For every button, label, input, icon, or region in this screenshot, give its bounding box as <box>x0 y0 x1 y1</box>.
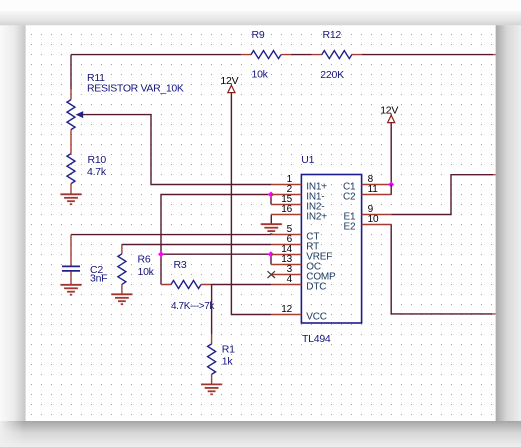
pin 1 IN1+ <box>271 174 327 193</box>
wire RT to R6 <box>122 244 271 246</box>
svg-text:12: 12 <box>281 304 292 315</box>
svg-text:R3: R3 <box>174 259 187 271</box>
svg-text:R12: R12 <box>323 29 342 41</box>
value RESISTOR VAR_10K <box>87 82 184 94</box>
pin 15 IN2- <box>271 194 324 213</box>
ground below R6 <box>111 294 132 304</box>
svg-text:4: 4 <box>287 274 293 285</box>
svg-text:DTC: DTC <box>306 282 326 293</box>
pin 2 IN1- <box>271 184 324 203</box>
label R1 <box>222 344 235 356</box>
pin 6 RT <box>271 234 319 253</box>
resistor R6 <box>118 245 126 295</box>
svg-text:4.7K--->7k: 4.7K--->7k <box>171 301 215 312</box>
op-amp U1 TL494 body <box>301 175 361 324</box>
value 3nF <box>90 273 107 285</box>
wire R3 right to DTC <box>211 284 271 286</box>
wire IN2+ to ground <box>270 215 272 225</box>
svg-text:10k: 10k <box>252 69 269 81</box>
svg-text:10: 10 <box>368 214 379 225</box>
pin 10 E2 <box>344 214 392 233</box>
svg-text:220K: 220K <box>320 69 344 81</box>
label R9 <box>252 29 265 41</box>
wire CT to C2 <box>71 234 271 236</box>
pin 12 VCC <box>271 304 327 323</box>
value 10k (R9) <box>252 69 269 81</box>
svg-text:VCC: VCC <box>306 312 327 323</box>
value 220K (R12) <box>320 69 344 81</box>
ground below R10 <box>60 194 81 204</box>
label R11 <box>87 72 105 84</box>
value 4.7k (R10) <box>87 166 107 178</box>
wire down to R1 <box>211 285 213 335</box>
svg-text:R9: R9 <box>252 29 265 41</box>
ground below R1 <box>201 384 222 394</box>
pin 8 C1 <box>343 174 391 193</box>
wire E2 down and right to page edge <box>391 225 495 314</box>
svg-text:R1: R1 <box>222 344 235 356</box>
svg-text:11: 11 <box>368 184 379 195</box>
ground below C2 <box>60 285 81 295</box>
pin 9 E1 <box>344 204 392 223</box>
value 10k (R6) <box>138 266 155 278</box>
label R12 <box>323 29 342 41</box>
junction dot at VREF/OC tie <box>268 251 274 257</box>
pin 4 DTC <box>271 274 326 293</box>
wire 12V down to VCC pin 12 <box>231 93 271 315</box>
junction dot at IN1-/IN2- tie <box>268 192 274 198</box>
svg-text:TL494: TL494 <box>302 333 331 345</box>
pin 13 OC <box>271 254 321 273</box>
pin 3 COMP <box>271 264 336 283</box>
wire 12V down to C1 junction <box>390 123 392 185</box>
resistor R1 <box>208 334 216 384</box>
resistor R3 <box>161 281 211 289</box>
svg-text:R10: R10 <box>88 154 107 166</box>
wire top rail from R11 top to page edge <box>71 55 496 90</box>
wire E1 to page edge <box>391 175 495 215</box>
svg-text:3nF: 3nF <box>90 273 107 285</box>
svg-text:1k: 1k <box>222 356 234 368</box>
svg-text:12V: 12V <box>380 105 398 117</box>
label R3 <box>174 259 187 271</box>
svg-text:R6: R6 <box>138 253 151 265</box>
svg-text:10k: 10k <box>138 266 155 278</box>
pin 16 IN2+ <box>271 204 327 223</box>
svg-text:E2: E2 <box>344 222 356 233</box>
value 1k (R1) <box>222 356 234 368</box>
label R10 <box>88 154 107 166</box>
potentiometer R11 <box>67 90 83 154</box>
label U1 <box>301 154 314 166</box>
label TL494 <box>302 333 331 345</box>
label 12V (left) <box>220 75 238 87</box>
no-connect X at COMP pin 3 <box>268 271 276 278</box>
svg-text:16: 16 <box>281 204 292 215</box>
wire C2 pin to C1 junction <box>390 185 392 195</box>
power 12V rail right <box>388 114 395 123</box>
ground at IN2+ <box>261 224 282 234</box>
wire IN1- to VREF junction and R3 <box>161 195 271 285</box>
power 12V rail left <box>228 84 235 93</box>
resistor R12 <box>312 51 362 59</box>
capacitor C2 <box>62 235 80 285</box>
junction dot at R3 left / IN1- column <box>158 251 164 257</box>
svg-text:4.7k: 4.7k <box>87 166 107 178</box>
svg-text:U1: U1 <box>301 154 314 166</box>
wire R11 wiper to IN1+ <box>83 115 271 185</box>
junction dot at C1/12V <box>388 182 394 188</box>
pin 5 CT <box>271 224 319 243</box>
svg-text:RESISTOR VAR_10K: RESISTOR VAR_10K <box>87 82 184 94</box>
pin 11 C2 <box>343 184 391 203</box>
svg-text:C2: C2 <box>343 192 356 203</box>
svg-text:IN2+: IN2+ <box>306 212 327 223</box>
resistor R9 <box>241 51 291 59</box>
label R6 <box>138 253 151 265</box>
label C2 <box>90 264 103 276</box>
resistor R10 <box>67 154 75 195</box>
svg-text:12V: 12V <box>220 75 238 87</box>
label 12V (right) <box>380 105 398 117</box>
pin 14 VREF <box>271 244 332 263</box>
